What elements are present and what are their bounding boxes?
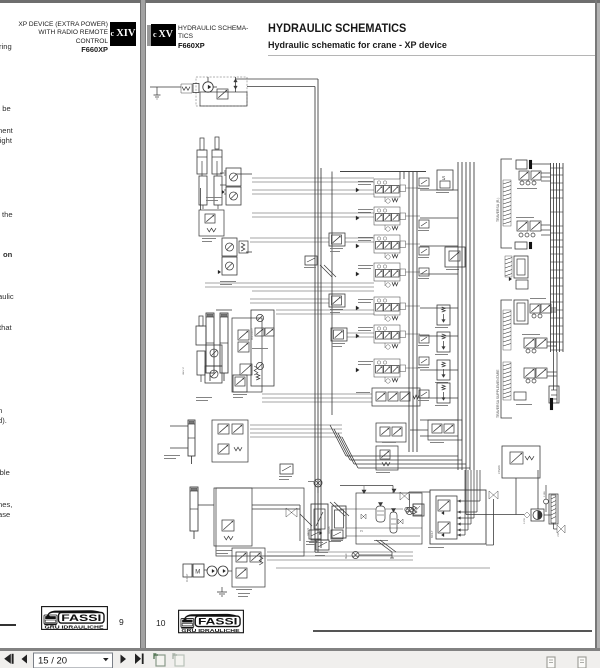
- svg-text:VA006: VA006: [327, 526, 331, 534]
- svg-text:VALV.17: VALV.17: [182, 366, 185, 375]
- svg-text:TRAVERSA SUPPLEMENTARE: TRAVERSA SUPPLEMENTARE: [496, 369, 500, 418]
- svg-text:TRAVERSA (R.): TRAVERSA (R.): [496, 198, 500, 222]
- svg-text:FASSI: FASSI: [61, 613, 101, 624]
- svg-text:VAC21: VAC21: [306, 527, 310, 536]
- svg-text:M.041P: M.041P: [186, 573, 189, 582]
- svg-text:LSVAK: LSVAK: [497, 465, 501, 474]
- svg-text:GRU IDRAULICHE: GRU IDRAULICHE: [45, 625, 104, 630]
- svg-text:P1: P1: [360, 530, 364, 533]
- svg-text:M: M: [195, 570, 200, 576]
- svg-text:15 / 20: 15 / 20: [38, 656, 67, 667]
- svg-text:LSC: LSC: [557, 532, 560, 537]
- svg-text:MOLT: MOLT: [430, 530, 434, 538]
- svg-text:F.07M: F.07M: [524, 518, 526, 524]
- svg-text:PRESSOST: PRESSOST: [252, 327, 254, 340]
